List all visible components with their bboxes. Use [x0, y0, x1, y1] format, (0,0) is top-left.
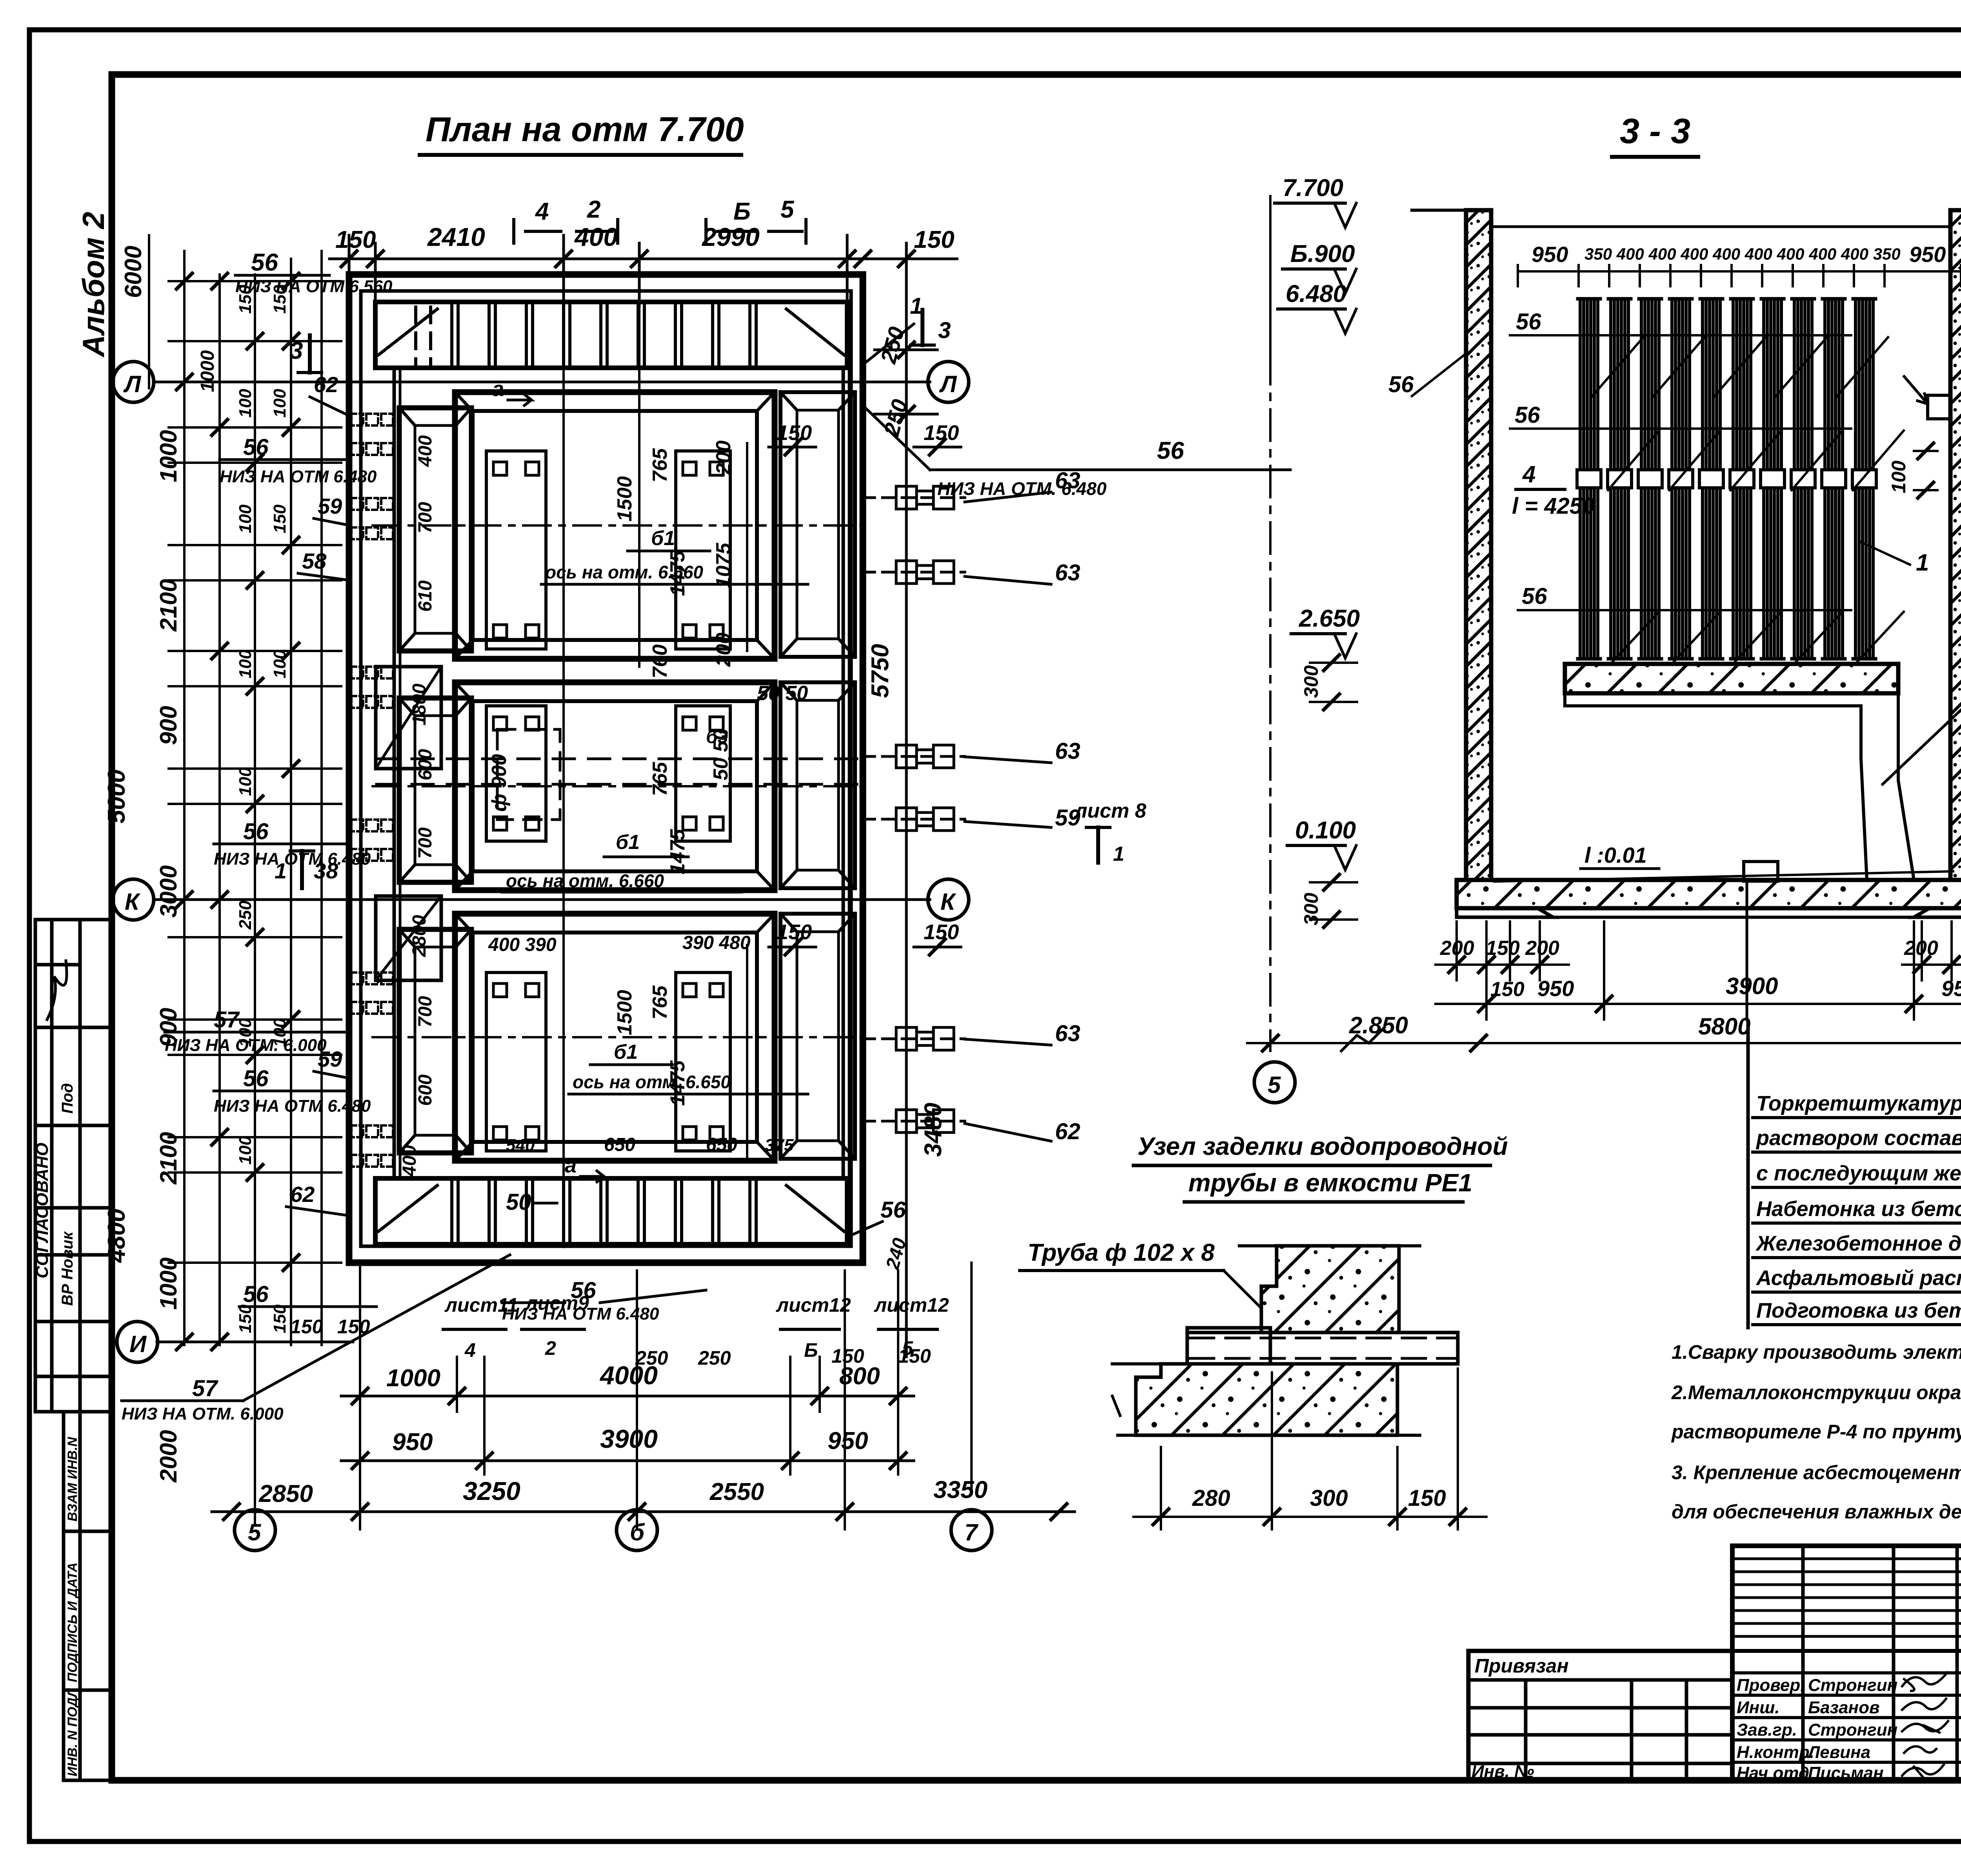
- svg-text:Альбом 2: Альбом 2: [76, 212, 111, 358]
- svg-text:150: 150: [1408, 1485, 1446, 1511]
- internal wall right of tanks: [842, 369, 845, 1178]
- svg-text:150: 150: [898, 1345, 931, 1367]
- svg-text:ф 900: ф 900: [488, 754, 511, 812]
- svg-text:Стронгин: Стронгин: [1808, 1720, 1897, 1740]
- svg-text:150: 150: [270, 1304, 289, 1333]
- svg-text:2.850: 2.850: [1349, 1012, 1408, 1038]
- svg-text:56: 56: [1516, 309, 1541, 334]
- lower concrete slab: [1136, 1364, 1397, 1435]
- svg-text:Л: Л: [939, 371, 957, 397]
- svg-text:760: 760: [649, 644, 671, 678]
- list marks bottom: [443, 1292, 949, 1361]
- svg-text:50: 50: [506, 1189, 531, 1215]
- svg-text:150: 150: [270, 504, 289, 533]
- svg-text:с последующим железнением.: с последующим железнением.: [1756, 1162, 1961, 1185]
- svg-text:трубы в емкости РЕ1: трубы в емкости РЕ1: [1188, 1169, 1472, 1197]
- svg-text:1000: 1000: [386, 1365, 440, 1392]
- pipe sleeve left: [1187, 1328, 1270, 1369]
- title block main outline: [1732, 1546, 1961, 1780]
- svg-text:Базанов: Базанов: [1808, 1698, 1880, 1717]
- left annex box: [1468, 1651, 1732, 1780]
- bottom chain 2850/3250/2550/3350: [212, 1511, 1075, 1513]
- svg-text:63: 63: [1055, 560, 1081, 585]
- svg-text:ПОДПИСЬ И ДАТА: ПОДПИСЬ И ДАТА: [65, 1562, 80, 1682]
- svg-text:НИЗ НА ОТМ 6.560: НИЗ НА ОТМ 6.560: [235, 277, 393, 296]
- axis line L: [157, 381, 930, 384]
- svg-text:950: 950: [392, 1429, 433, 1456]
- svg-text:3350: 3350: [933, 1476, 988, 1503]
- svg-text:100: 100: [236, 504, 255, 533]
- tank row 3 left chamber: [399, 929, 471, 1153]
- svg-text:3900: 3900: [600, 1424, 658, 1453]
- svg-text:ВР Новик: ВР Новик: [59, 1231, 76, 1306]
- svg-text:раствором состава 1:2 В2 нам: раствором состава 1:2 В2 намета S=25мм: [1755, 1126, 1961, 1150]
- svg-text:План на отм 7.700: План на отм 7.700: [426, 110, 744, 149]
- svg-text:150: 150: [270, 285, 289, 314]
- svg-text:150 200: 150 200: [1486, 937, 1559, 960]
- svg-text:540: 540: [506, 1136, 535, 1155]
- bottom chain 950/3900/950: [341, 1460, 914, 1462]
- svg-text:765: 765: [649, 762, 671, 796]
- svg-text:950: 950: [1532, 242, 1568, 267]
- svg-text:150: 150: [777, 920, 812, 944]
- top dim line 150/2410/400/2990/150: [329, 258, 957, 260]
- svg-text:400: 400: [399, 1145, 420, 1177]
- svg-text:Набетонка из бетона В3.5 по: Набетонка из бетона В3.5 по уклону: [1756, 1197, 1961, 1221]
- left chamber rotated labels: [399, 435, 436, 1177]
- svg-text:280: 280: [1192, 1485, 1230, 1511]
- svg-text:Инв. №: Инв. №: [1472, 1762, 1534, 1781]
- svg-text:Н.контр.: Н.контр.: [1737, 1743, 1814, 1762]
- svg-text:Б: Б: [733, 198, 751, 225]
- svg-text:1000: 1000: [155, 1258, 182, 1310]
- svg-text:2100: 2100: [155, 1132, 182, 1185]
- svg-text:Левина: Левина: [1807, 1743, 1870, 1762]
- svg-text:100: 100: [236, 767, 255, 796]
- svg-text:650: 650: [604, 1134, 635, 1155]
- svg-text:l :0.01: l :0.01: [1584, 843, 1647, 867]
- svg-text:ИНВ. N ПОДЛ: ИНВ. N ПОДЛ: [65, 1688, 80, 1776]
- pipe flange clusters through right wall: [863, 486, 965, 509]
- svg-text:900: 900: [155, 706, 182, 745]
- svg-text:950: 950: [828, 1427, 868, 1454]
- svg-text:2100: 2100: [155, 579, 182, 632]
- svg-text:Узел заделки водопроводной: Узел заделки водопроводной: [1137, 1132, 1508, 1160]
- svg-text:100: 100: [1888, 460, 1910, 493]
- svg-text:2000: 2000: [155, 1430, 182, 1483]
- svg-text:62: 62: [314, 372, 338, 397]
- svg-text:200: 200: [1440, 937, 1474, 960]
- svg-text:2: 2: [545, 1337, 556, 1359]
- tank row 1 right chamber: [780, 392, 855, 657]
- svg-text:2990: 2990: [701, 222, 760, 251]
- plan outer wall: [349, 274, 863, 1263]
- signature rows: [1732, 1673, 1961, 1762]
- svg-text:Под: Под: [59, 1083, 76, 1114]
- svg-text:НИЗ НА ОТМ. 6.000: НИЗ НА ОТМ. 6.000: [122, 1404, 284, 1423]
- tank row 2 main basin: [455, 682, 775, 890]
- svg-text:200: 200: [1904, 937, 1938, 960]
- svg-text:2410: 2410: [427, 222, 485, 251]
- svg-text:1500: 1500: [613, 990, 636, 1035]
- svg-text:1500: 1500: [613, 476, 636, 522]
- left wall inter-chamber: [376, 667, 441, 769]
- svg-text:150: 150: [236, 1304, 255, 1333]
- svg-text:Б: Б: [804, 1339, 818, 1361]
- svg-text:3250: 3250: [463, 1476, 520, 1505]
- svg-text:1000: 1000: [155, 430, 182, 482]
- svg-text:57: 57: [192, 1376, 218, 1401]
- section axis bubble 5: [1254, 1062, 1295, 1103]
- svg-text:56: 56: [1388, 372, 1414, 397]
- pipe through wall: [1187, 1332, 1458, 1364]
- svg-text:Б.900: Б.900: [1290, 240, 1355, 267]
- svg-text:56: 56: [1522, 584, 1547, 609]
- svg-text:Железобетонное днище: Железобетонное днище: [1755, 1232, 1961, 1255]
- svg-text:58: 58: [302, 549, 327, 573]
- svg-text:б1: б1: [614, 1041, 638, 1063]
- top edge lines: [1412, 209, 1491, 212]
- svg-text:Л: Л: [123, 371, 142, 397]
- svg-text:И: И: [129, 1331, 147, 1357]
- internal spine wall left: [393, 369, 396, 1178]
- svg-text:б: б: [630, 1519, 645, 1545]
- svg-text:400 390: 400 390: [488, 934, 557, 955]
- axis line I: [157, 1341, 353, 1343]
- svg-text:для обеспечения влажных дефо: для обеспечения влажных деформаций листа…: [1672, 1501, 1961, 1523]
- svg-text:Письман: Письман: [1808, 1763, 1884, 1783]
- svg-text:ось на отм. 6.660: ось на отм. 6.660: [506, 871, 664, 891]
- top filter strip: [375, 302, 847, 368]
- svg-text:а: а: [492, 377, 504, 401]
- svg-text:63: 63: [1055, 738, 1081, 764]
- tank row 3 centre axis line: [373, 1036, 861, 1038]
- svg-text:растворителе Р-4 по прунту Х: растворителе Р-4 по прунту ХС-04.: [1671, 1421, 1961, 1443]
- svg-text:Привязан: Привязан: [1475, 1655, 1569, 1677]
- svg-text:600: 600: [415, 749, 436, 780]
- svg-text:59: 59: [1055, 805, 1081, 831]
- svg-text:100: 100: [270, 649, 289, 678]
- svg-text:2800: 2800: [409, 915, 430, 957]
- svg-text:600: 600: [415, 1074, 436, 1106]
- svg-text:4800: 4800: [103, 1209, 130, 1263]
- svg-text:4000: 4000: [599, 1361, 658, 1390]
- tank row 3 plate a: [486, 973, 546, 1151]
- svg-text:3900: 3900: [1726, 973, 1778, 999]
- svg-text:650: 650: [706, 1134, 737, 1155]
- revision table columns: [1801, 1546, 1805, 1780]
- axis bubble K right: [928, 879, 969, 920]
- tank row 3 plate b: [676, 973, 730, 1151]
- svg-text:950: 950: [1941, 976, 1961, 1001]
- svg-text:100: 100: [270, 389, 289, 418]
- svg-text:1: 1: [275, 858, 287, 883]
- left wall inter-chamber: [376, 896, 441, 980]
- svg-text:1: 1: [1916, 549, 1929, 576]
- svg-text:765: 765: [649, 448, 671, 482]
- svg-text:5: 5: [1268, 1072, 1281, 1098]
- svg-text:лист12: лист12: [874, 1294, 949, 1316]
- svg-text:4: 4: [535, 198, 549, 225]
- svg-text:2: 2: [587, 196, 600, 223]
- spec block lower border: [1746, 1020, 1750, 1329]
- svg-text:0.100: 0.100: [1295, 817, 1356, 844]
- axis bubble I left: [117, 1322, 158, 1362]
- svg-text:59: 59: [318, 494, 342, 518]
- upper concrete wall: [1261, 1246, 1399, 1332]
- svg-text:400: 400: [415, 435, 436, 467]
- svg-text:100: 100: [236, 1136, 255, 1165]
- svg-text:56: 56: [880, 1197, 906, 1223]
- svg-text:700: 700: [415, 996, 436, 1027]
- svg-text:150: 150: [1490, 978, 1524, 1001]
- svg-text:7.700: 7.700: [1282, 175, 1343, 202]
- svg-text:Нач отд: Нач отд: [1737, 1763, 1809, 1783]
- svg-text:Торкретштукатурка цементно-пес: Торкретштукатурка цементно-песчаным: [1756, 1092, 1961, 1115]
- svg-text:56: 56: [1515, 402, 1540, 428]
- suspended shelf slab: [1565, 664, 1898, 693]
- svg-text:2.650: 2.650: [1299, 605, 1360, 632]
- axis bubble K left: [113, 879, 154, 920]
- svg-text:3000: 3000: [155, 865, 182, 918]
- svg-text:К: К: [940, 889, 957, 915]
- svg-text:3480: 3480: [920, 1103, 947, 1157]
- svg-text:Зав.гр.: Зав.гр.: [1737, 1720, 1797, 1740]
- in-tank dimension annotations: [488, 271, 808, 1247]
- svg-text:150: 150: [337, 1316, 370, 1338]
- tank row 2 centre axis line: [373, 785, 861, 787]
- svg-text:200: 200: [712, 440, 735, 475]
- svg-text:765: 765: [649, 985, 671, 1020]
- svg-text:5: 5: [248, 1519, 262, 1545]
- svg-text:а: а: [565, 1154, 577, 1177]
- svg-text:150: 150: [777, 421, 812, 445]
- svg-text:56: 56: [243, 434, 269, 460]
- svg-text:62: 62: [290, 1182, 315, 1207]
- svg-text:150: 150: [236, 285, 255, 314]
- svg-text:950: 950: [1909, 242, 1946, 267]
- section mark 1-3 top-right: [863, 324, 914, 365]
- tank row 3 main basin: [455, 914, 775, 1161]
- svg-text:150: 150: [924, 920, 959, 944]
- svg-text:6.480: 6.480: [1286, 280, 1346, 307]
- svg-text:350 400 400 400 400 400 400 40: 350 400 400 400 400 400 400 400 400 350: [1584, 245, 1901, 263]
- svg-text:63: 63: [1055, 468, 1081, 493]
- tank row 2 plate a: [486, 706, 546, 841]
- left signature table upper: [35, 920, 113, 1412]
- svg-text:300: 300: [1310, 1485, 1348, 1511]
- detail bottom dims: [1133, 1369, 1486, 1529]
- svg-text:300: 300: [1300, 665, 1322, 698]
- section bottom dims: [1247, 922, 1961, 1059]
- svg-text:250: 250: [875, 324, 909, 367]
- svg-text:56: 56: [243, 1066, 269, 1091]
- svg-text:1075: 1075: [712, 542, 735, 588]
- tank row 1 plate b: [676, 451, 730, 649]
- top dim chain markers 4-2: [514, 196, 806, 243]
- svg-text:НИЗ НА ОТМ 6.480: НИЗ НА ОТМ 6.480: [214, 1096, 371, 1116]
- svg-text:375: 375: [765, 1136, 794, 1155]
- svg-text:лист12: лист12: [776, 1294, 851, 1316]
- svg-text:150: 150: [335, 226, 376, 253]
- svg-text:5: 5: [780, 196, 795, 223]
- svg-text:ВЗАМ ИНВ.N: ВЗАМ ИНВ.N: [65, 1436, 80, 1522]
- section left wall: [1466, 210, 1491, 882]
- svg-text:3: 3: [938, 318, 951, 343]
- svg-text:1: 1: [1113, 843, 1124, 865]
- axis bubble L right: [928, 362, 969, 402]
- svg-text:3. Крепление асбестоцементных: 3. Крепление асбестоцементных листов вып…: [1672, 1462, 1961, 1483]
- svg-text:4: 4: [464, 1339, 476, 1361]
- bottom axis bubbles 5 6 7: [235, 1510, 275, 1551]
- tank row 2 left chamber: [399, 698, 471, 882]
- svg-text:Инш.: Инш.: [1737, 1698, 1780, 1717]
- tank row 1 left chamber: [399, 408, 471, 651]
- svg-text:5750: 5750: [867, 644, 894, 698]
- extension vertical mid: [638, 271, 640, 667]
- svg-text:б3: б3: [706, 727, 728, 747]
- svg-text:2.Металлоконструкции окрасить: 2.Металлоконструкции окрасить перхлорвин…: [1671, 1382, 1961, 1403]
- svg-text:Подготовка из бетона В3.5: Подготовка из бетона В3.5: [1756, 1299, 1961, 1322]
- left chain horizontal ticks: [169, 281, 341, 1342]
- svg-text:Асфальтовый раствор: Асфальтовый раствор: [1755, 1266, 1961, 1290]
- svg-text:700: 700: [415, 827, 436, 859]
- signature squiggles: [1902, 1672, 1948, 1780]
- svg-text:Провер.: Провер.: [1737, 1676, 1805, 1695]
- plan outer wall inner line: [361, 291, 851, 1246]
- svg-text:400: 400: [574, 222, 618, 251]
- svg-text:56: 56: [1157, 437, 1184, 464]
- bottom chain 1000/4000/800: [341, 1395, 914, 1398]
- svg-text:7: 7: [964, 1519, 979, 1545]
- bottom filter strip: [375, 1178, 847, 1244]
- svg-text:лист9: лист9: [525, 1292, 589, 1314]
- tank row 1 plate a: [486, 451, 546, 649]
- svg-text:150: 150: [914, 226, 954, 253]
- svg-text:К: К: [125, 889, 141, 915]
- svg-text:38: 38: [314, 858, 338, 883]
- svg-text:56: 56: [243, 819, 269, 844]
- extension verticals to bottom chains: [359, 1263, 361, 1529]
- bottom slab: [1457, 880, 1961, 908]
- svg-text:Труба ф 102 х 8: Труба ф 102 х 8: [1028, 1239, 1215, 1266]
- svg-text:200: 200: [712, 633, 735, 667]
- axis 5 centreline: [1269, 353, 1272, 1051]
- tank row 2 right chamber: [780, 682, 855, 888]
- svg-text:56: 56: [251, 249, 278, 276]
- svg-text:50 50: 50 50: [757, 682, 808, 705]
- svg-text:390 480: 390 480: [682, 933, 751, 953]
- svg-text:700: 700: [415, 502, 436, 533]
- svg-text:5000: 5000: [103, 769, 130, 823]
- axis bubble L left: [113, 362, 154, 402]
- svg-text:62: 62: [1055, 1119, 1081, 1144]
- microfilter tube bank: [1577, 299, 1876, 659]
- svg-text:СОГЛАСОВАНО: СОГЛАСОВАНО: [33, 1143, 52, 1278]
- svg-text:2550: 2550: [709, 1478, 764, 1505]
- bank spacing dims 950 350 400x8 350 950: [1518, 270, 1961, 273]
- svg-text:б1: б1: [616, 831, 640, 854]
- left dim chain verticals: [148, 235, 150, 388]
- tank row 1 centre axis line: [373, 524, 861, 527]
- svg-text:610: 610: [415, 580, 436, 612]
- svg-text:1475: 1475: [666, 829, 689, 874]
- svg-text:б1: б1: [651, 527, 675, 550]
- right leader 56 niz na otm 6.480: [863, 405, 930, 470]
- svg-text:950: 950: [1537, 976, 1574, 1001]
- svg-text:1: 1: [910, 293, 922, 319]
- tank row 2 plate b: [676, 706, 730, 841]
- axis line K: [157, 898, 930, 901]
- svg-text:НИЗ НА ОТМ 6.480: НИЗ НА ОТМ 6.480: [220, 467, 377, 486]
- svg-text:2850: 2850: [258, 1480, 313, 1507]
- svg-text:5800: 5800: [1698, 1013, 1750, 1040]
- svg-text:100: 100: [236, 389, 255, 418]
- svg-text:250: 250: [236, 900, 255, 930]
- svg-text:НИЗ НА ОТМ. 6.000: НИЗ НА ОТМ. 6.000: [165, 1036, 327, 1055]
- tank row 1 main basin: [455, 392, 775, 659]
- svg-text:лист 8: лист 8: [1073, 800, 1146, 822]
- drain box on slab: [1744, 862, 1778, 881]
- row2 dashed pipe runs: [377, 758, 861, 760]
- svg-text:100: 100: [236, 649, 255, 678]
- svg-text:ось на отм. 6.660: ось на отм. 6.660: [545, 562, 703, 582]
- svg-text:1000: 1000: [197, 350, 218, 392]
- svg-text:59: 59: [318, 1047, 342, 1071]
- svg-text:ось на отм. 6.650: ось на отм. 6.650: [573, 1072, 731, 1092]
- svg-text:Стронгин: Стронгин: [1808, 1676, 1897, 1695]
- wall sleeve squares (56): [351, 414, 393, 1167]
- svg-text:150: 150: [290, 1316, 323, 1338]
- svg-text:1.Сварку производить электрод: 1.Сварку производить электродами 9-42 по…: [1672, 1341, 1961, 1363]
- svg-text:56: 56: [243, 1282, 269, 1307]
- svg-text:4: 4: [1522, 461, 1535, 487]
- svg-text:3 - 3: 3 - 3: [1620, 112, 1690, 151]
- svg-text:6000: 6000: [120, 246, 146, 298]
- svg-text:l = 4250: l = 4250: [1512, 493, 1595, 519]
- svg-text:57: 57: [214, 1007, 240, 1033]
- tank row 3 right chamber: [780, 914, 855, 1159]
- svg-text:лист11: лист11: [444, 1294, 518, 1316]
- left signature table lower: [64, 1412, 113, 1780]
- svg-text:63: 63: [1055, 1021, 1081, 1046]
- svg-text:250: 250: [698, 1347, 731, 1369]
- slope line i=0.01: [1494, 871, 1953, 882]
- cut line a vertical: [562, 271, 565, 1247]
- section right wall: [1950, 210, 1961, 900]
- svg-text:1800: 1800: [409, 684, 430, 725]
